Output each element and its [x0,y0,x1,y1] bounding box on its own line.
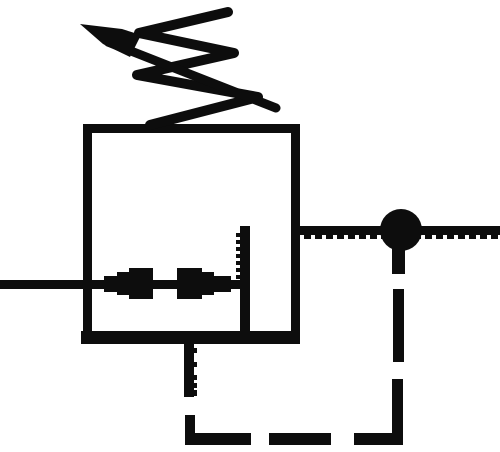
spring (zigzag) [137,12,258,125]
flow arrowhead right-pointing [177,268,231,299]
adjustment arrowhead [80,24,141,57]
valve body box right edge [291,124,300,343]
flow arrowhead left-pointing [96,268,153,299]
vent line below box [184,343,194,397]
bottom dashed line middle dash [269,433,331,445]
pilot line stem below node [392,248,405,274]
outlet line (wire) [291,226,500,235]
adjustment arrow shaft [108,42,276,108]
pilot line dashed vertical segment [393,289,404,362]
valve body box left edge [83,124,92,343]
node (junction dot) [380,209,422,251]
inlet flow line (wire) [0,280,245,289]
seat line ragged ticks [236,233,240,279]
bottom dashed line left corner segment [185,415,251,445]
internal vertical line (seat) [240,226,250,343]
pilot line corner segment (vertical + bottom horizontal) [354,379,403,445]
valve body box bottom edge [81,331,300,344]
outlet line ragged bottom dashes [304,235,498,239]
valve body box top edge [83,124,300,133]
vent line ragged ticks [193,348,197,388]
